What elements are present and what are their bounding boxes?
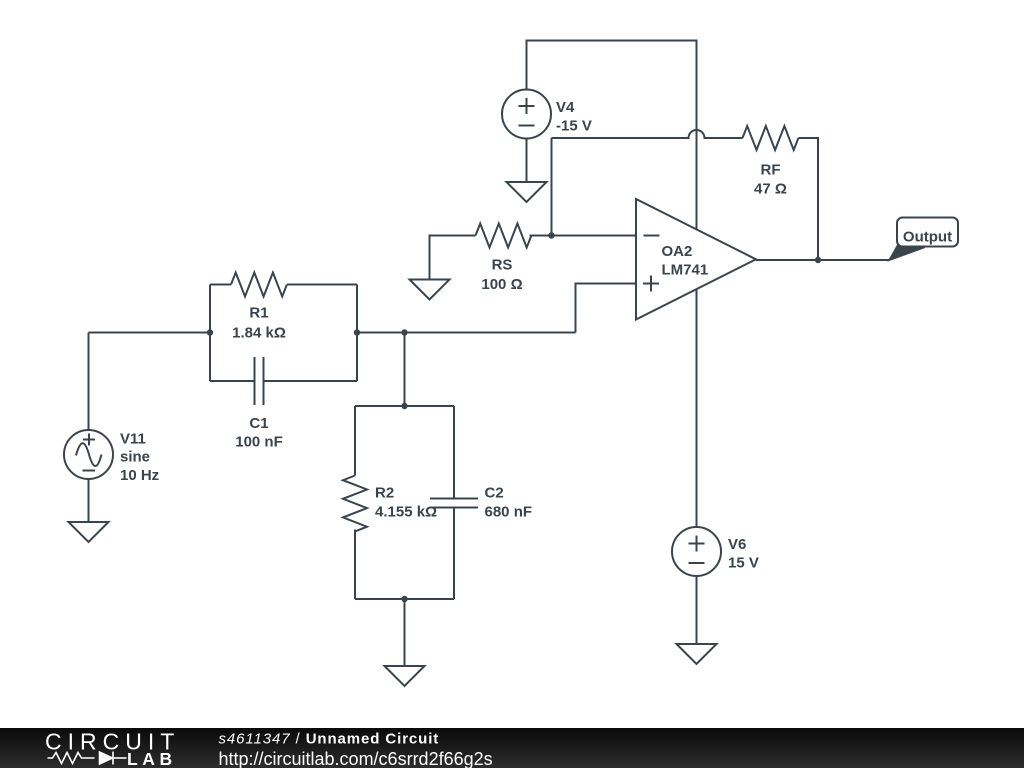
junction node box right <box>354 329 360 335</box>
resistor RF <box>743 126 819 260</box>
wire V4 bottom lead <box>526 138 528 182</box>
resistor R1 <box>210 273 357 297</box>
op-amp OA2 <box>636 199 756 320</box>
svg-text:680 nF: 680 nF <box>485 504 533 521</box>
junction node RS/feedback <box>548 232 554 238</box>
wire output <box>756 259 889 261</box>
wire top rail from V4 to op-amp power <box>527 41 697 528</box>
wire node to R2C2 box <box>404 333 406 407</box>
wire V6 bottom lead <box>696 576 698 644</box>
ground below RS <box>410 280 450 300</box>
output flag <box>889 218 959 261</box>
R1 C1 parallel box <box>210 285 357 382</box>
wire V11 top lead <box>88 333 90 431</box>
svg-text:LAB: LAB <box>127 749 177 768</box>
voltage source V4 <box>502 90 551 139</box>
svg-text:V11: V11 <box>120 431 146 448</box>
voltage source V11 sine <box>64 430 113 479</box>
svg-text:R1: R1 <box>249 305 268 322</box>
junction node R2 branch <box>401 329 407 335</box>
svg-text:RS: RS <box>492 257 513 274</box>
R2 C2 parallel box top <box>355 405 454 407</box>
junction node output/RF <box>815 257 821 263</box>
svg-text:10 Hz: 10 Hz <box>120 467 159 484</box>
junction node box left <box>207 329 213 335</box>
CircuitLab logo resistor-diode glyph <box>48 752 127 765</box>
svg-text:RF: RF <box>761 162 781 179</box>
R2 C2 parallel box bottom <box>355 598 454 600</box>
wire R2C2 to ground <box>404 599 406 666</box>
junction node R2C2 bottom <box>401 596 407 602</box>
junction node R2C2 top <box>401 403 407 409</box>
svg-text:R2: R2 <box>375 485 394 502</box>
capacitor C1 <box>210 357 357 405</box>
svg-text:C2: C2 <box>485 485 504 502</box>
svg-text:1.84 kΩ: 1.84 kΩ <box>232 325 286 342</box>
wire node to plus-input horizontal <box>357 332 576 334</box>
ground below R2C2 <box>385 666 425 686</box>
svg-text:http://circuitlab.com/c6srrd2f: http://circuitlab.com/c6srrd2f66g2s <box>219 749 493 768</box>
wire input node horizontal left <box>89 332 211 334</box>
svg-text:OA2: OA2 <box>662 243 693 260</box>
svg-text:C1: C1 <box>249 415 268 432</box>
svg-text:s4611347 / Unnamed Circuit: s4611347 / Unnamed Circuit <box>219 731 440 748</box>
svg-text:V4: V4 <box>556 99 575 116</box>
svg-text:47 Ω: 47 Ω <box>754 181 787 198</box>
wire V11 bottom lead <box>88 479 90 522</box>
ground below V4 <box>507 182 547 202</box>
svg-text:sine: sine <box>120 449 150 466</box>
svg-text:-15 V: -15 V <box>556 118 592 135</box>
svg-text:100 nF: 100 nF <box>235 434 283 451</box>
resistor R2 <box>343 406 367 599</box>
svg-text:LM741: LM741 <box>662 262 709 279</box>
svg-text:Output: Output <box>903 229 952 246</box>
svg-text:V6: V6 <box>728 536 746 553</box>
svg-text:15 V: 15 V <box>728 555 759 572</box>
svg-text:100 Ω: 100 Ω <box>481 276 522 293</box>
wire feedback node vertical <box>551 138 553 236</box>
resistor RS <box>430 224 552 280</box>
wire minus input <box>552 235 637 237</box>
capacitor C2 <box>430 406 478 599</box>
wire plus input <box>576 284 637 333</box>
ground below V6 <box>677 644 717 664</box>
voltage source V6 <box>672 527 721 576</box>
wire feedback horizontal with hop over power wire <box>552 130 743 138</box>
footer bar <box>0 728 1024 768</box>
ground below V11 <box>69 522 109 542</box>
svg-text:4.155 kΩ: 4.155 kΩ <box>375 504 437 521</box>
